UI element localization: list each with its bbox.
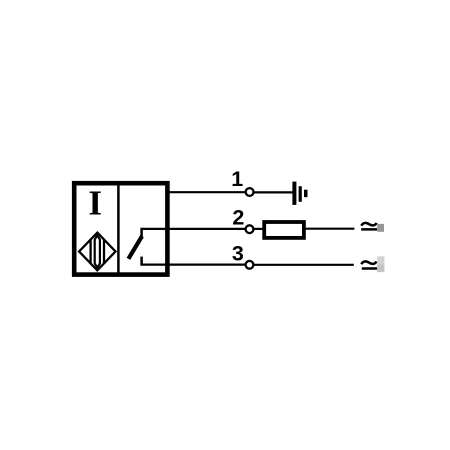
grey artifact block line 2 xyxy=(377,224,384,232)
grey artifact block line 3 xyxy=(377,256,384,272)
terminal circle 3 xyxy=(246,261,254,269)
wire pin2 from switch to terminal 2 xyxy=(141,228,246,230)
wire from resistor to supply 2 xyxy=(306,228,355,230)
switch fixed contact (top stub) xyxy=(140,228,143,238)
sensor body divider xyxy=(117,181,120,277)
ground symbol (horizontal) xyxy=(292,182,307,205)
svg-text:I: I xyxy=(88,184,102,223)
svg-text:3: 3 xyxy=(232,242,244,266)
proximity sensor diamond symbol xyxy=(79,233,115,271)
wire pin3 from switch to terminal 3 xyxy=(141,264,246,266)
AC supply symbol line 3 xyxy=(361,261,377,268)
svg-text:1: 1 xyxy=(231,167,243,191)
wire from terminal 2 to resistor xyxy=(253,228,263,230)
resistor (load) xyxy=(264,222,304,238)
wire from terminal 3 to supply 3 xyxy=(253,264,353,266)
switch bottom contact (stub) xyxy=(140,257,143,266)
label 2 xyxy=(232,206,244,230)
wire from terminal 1 to ground xyxy=(253,191,293,193)
label 3 xyxy=(232,242,244,266)
label 1 xyxy=(231,167,243,191)
svg-text:2: 2 xyxy=(232,206,244,230)
AC supply symbol line 2 xyxy=(361,223,377,230)
sensor body outline xyxy=(74,183,167,274)
wire pin1 from box to terminal 1 xyxy=(167,191,246,193)
terminal circle 2 xyxy=(246,225,254,233)
terminal circle 1 xyxy=(246,188,254,196)
switch lever xyxy=(128,236,142,259)
label I (inductive) xyxy=(88,184,102,223)
